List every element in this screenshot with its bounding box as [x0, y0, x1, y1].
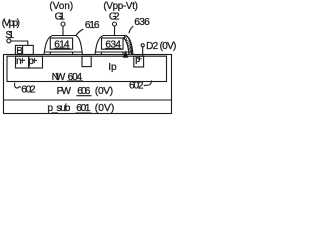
- svg-text:S1: S1: [5, 30, 14, 41]
- svg-text:p+: p+: [135, 54, 142, 64]
- svg-text:n+: n+: [16, 56, 25, 67]
- svg-text:602: 602: [129, 81, 144, 92]
- svg-text:602: 602: [21, 84, 36, 95]
- svg-text:604: 604: [68, 72, 83, 83]
- svg-text:(Von): (Von): [49, 1, 73, 12]
- svg-text:p+: p+: [28, 56, 37, 67]
- svg-text:(0V): (0V): [95, 103, 115, 114]
- svg-text:614: 614: [54, 39, 70, 50]
- svg-text:G1: G1: [55, 12, 66, 23]
- svg-text:601: 601: [76, 103, 91, 114]
- svg-text:G2: G2: [109, 12, 120, 23]
- svg-text:616: 616: [85, 20, 100, 31]
- svg-text:p_sub: p_sub: [47, 103, 70, 114]
- svg-text:PW: PW: [57, 86, 72, 97]
- svg-text:606: 606: [77, 86, 91, 97]
- svg-text:634: 634: [105, 39, 121, 50]
- svg-text:D2 (0V): D2 (0V): [146, 41, 176, 52]
- svg-text:NW: NW: [52, 72, 66, 83]
- svg-text:(0V): (0V): [95, 86, 113, 97]
- svg-text:(Vpp-Vt): (Vpp-Vt): [103, 1, 137, 12]
- svg-text:636: 636: [134, 17, 150, 28]
- svg-text:(Vpp): (Vpp): [2, 18, 20, 29]
- svg-text:Ip: Ip: [108, 62, 117, 73]
